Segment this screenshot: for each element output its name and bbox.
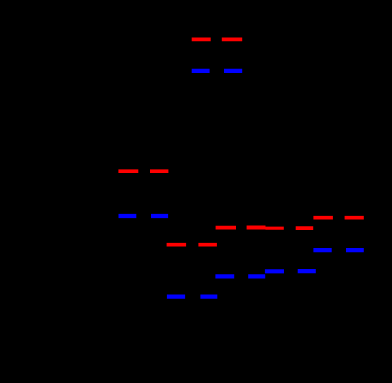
level B4: mid-left blue dash (right) <box>151 214 168 218</box>
level G4: center blue dash 4 <box>298 269 316 273</box>
level D2: bottom-left blue dash (right) <box>200 295 217 299</box>
level B1: mid-left red dash (left) <box>118 169 138 173</box>
level C1: lower-left red dash (left) <box>167 243 187 247</box>
level G3: center blue dash 3 <box>265 269 284 273</box>
level B2: mid-left red dash (right) <box>150 169 168 173</box>
level G1: center blue dash 1 <box>215 274 234 278</box>
level B3: mid-left blue dash (left) <box>119 214 137 218</box>
level F2: center red dash 2 <box>247 226 266 230</box>
level A3: top blue dash (left) <box>192 69 210 73</box>
level D1: bottom-left blue dash (left) <box>167 295 185 299</box>
level G2: center blue dash 2 <box>248 274 265 278</box>
level E2: right red dash (right) <box>345 216 364 220</box>
level C2: lower-left red dash (right) <box>198 243 217 247</box>
level F4: center red dash 4 <box>296 226 314 230</box>
level E4: right blue dash (right) <box>346 248 364 252</box>
level E1: right red dash (left) <box>313 216 333 220</box>
level F1: center red dash 1 <box>216 226 236 230</box>
level A2: top red dash (right) <box>222 38 242 42</box>
level E3: right blue dash (left) <box>313 248 331 252</box>
level A1: top red dash (left) <box>192 38 211 42</box>
level A4: top blue dash (right) <box>224 69 242 73</box>
level F3: center red dash 3 <box>266 227 284 230</box>
